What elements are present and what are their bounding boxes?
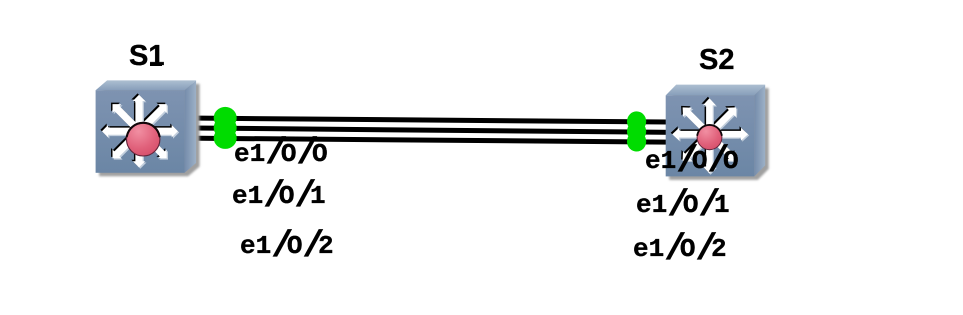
label e1/0/1 left: [232, 181, 326, 209]
switch S1: [96, 80, 200, 176]
label e1/0/1 right: [636, 190, 730, 218]
wire link2 e1/0/1 S1-S2: [160, 128, 700, 133]
switch S2: [666, 85, 769, 180]
label S2: [699, 46, 734, 75]
label e1/0/2 left: [240, 231, 334, 259]
wire link3 e1/0/2 S1-S2: [160, 138, 700, 143]
label e1/0/2 right: [633, 234, 727, 262]
label S1: [129, 42, 164, 71]
label e1/0/0 left: [234, 139, 328, 167]
status indicator S2 side (green, 3 overlapping ellipses): [627, 111, 646, 151]
status indicator S1 side (green, 3 overlapping ellipses): [214, 107, 237, 149]
label e1/0/0 right: [645, 146, 739, 174]
wire link1 e1/0/0 S1-S2: [160, 118, 700, 123]
